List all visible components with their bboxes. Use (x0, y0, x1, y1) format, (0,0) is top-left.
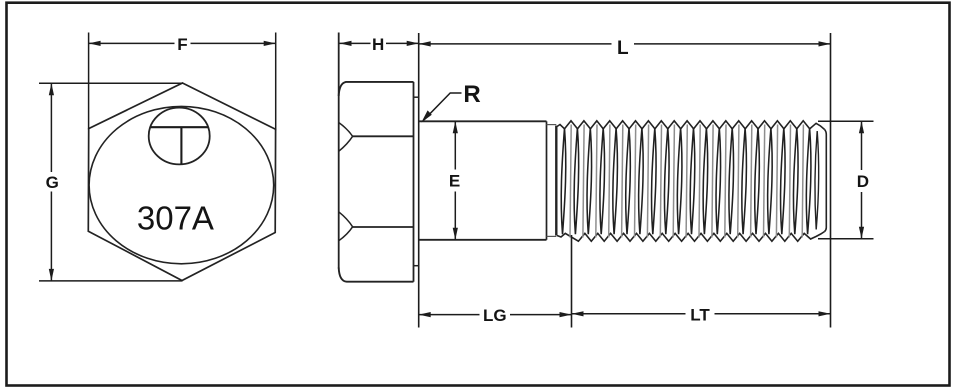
dimension LT: dimension line (572, 313, 686, 315)
dimension F: extension lines (88, 33, 90, 130)
upper facet line (353, 135, 414, 137)
grade marking circle (149, 108, 210, 165)
head bottom edge (339, 268, 414, 282)
dimension G: dimension line with arrows (50, 83, 52, 172)
thread crest zigzag top (557, 121, 825, 130)
head right face (413, 82, 415, 282)
bolt head side view: left silhouette edge (also H extension line) (338, 33, 340, 269)
dimension D: dimension line (861, 121, 863, 170)
svg-text:E: E (449, 172, 460, 191)
thread crest zigzag bottom (557, 232, 825, 242)
first thread root line (555, 126, 557, 236)
head top edge (339, 82, 414, 96)
grade mark T: vertical stem (180, 127, 182, 164)
chamfer circle (inscribed ellipse) (89, 106, 274, 263)
washer face right edge / shared extension line for H, L, LG (418, 33, 420, 328)
svg-text:LG: LG (483, 306, 507, 325)
lower facet arcs (339, 212, 353, 241)
grip end line (body-to-thread boundary) (546, 121, 548, 240)
bolt end extension line (L right / LT right) (830, 33, 832, 328)
dimension F: dimension line with arrows (89, 42, 175, 44)
svg-text:G: G (46, 173, 59, 192)
svg-text:307A: 307A (137, 199, 214, 236)
shank bottom edge (419, 239, 547, 241)
dimension G: extension lines (39, 82, 183, 84)
bolt end face (825, 130, 827, 232)
shank top edge (419, 120, 547, 122)
thread runout bottom (547, 235, 557, 237)
upper facet arcs (339, 123, 353, 152)
dimension E: dimension line (454, 121, 456, 169)
hex head front view: hexagon outline (88, 83, 275, 281)
dimension D: extension lines (818, 120, 874, 122)
svg-text:LT: LT (690, 305, 710, 324)
dimension L: dimension line (419, 43, 612, 45)
partial end thread lens (815, 131, 819, 230)
svg-text:L: L (617, 38, 629, 59)
svg-text:D: D (857, 172, 869, 191)
dimension H: left extension above head handled by silhouette; dimension line (340, 42, 371, 44)
svg-text:R: R (463, 81, 480, 108)
thread helix lens lines (561, 125, 811, 238)
washer face top tick (414, 96, 419, 98)
dimension LG: dimension line (419, 314, 480, 316)
svg-text:F: F (177, 35, 187, 54)
grade mark T: horizontal chord (151, 126, 208, 128)
R callout arrowhead (421, 110, 432, 122)
thread runout top (547, 124, 557, 126)
R fillet callout: leader line (424, 93, 462, 120)
LG/LT shared middle extension line (571, 235, 573, 328)
svg-text:H: H (372, 35, 384, 54)
lower facet line (353, 226, 414, 228)
washer face bottom tick (414, 265, 419, 267)
